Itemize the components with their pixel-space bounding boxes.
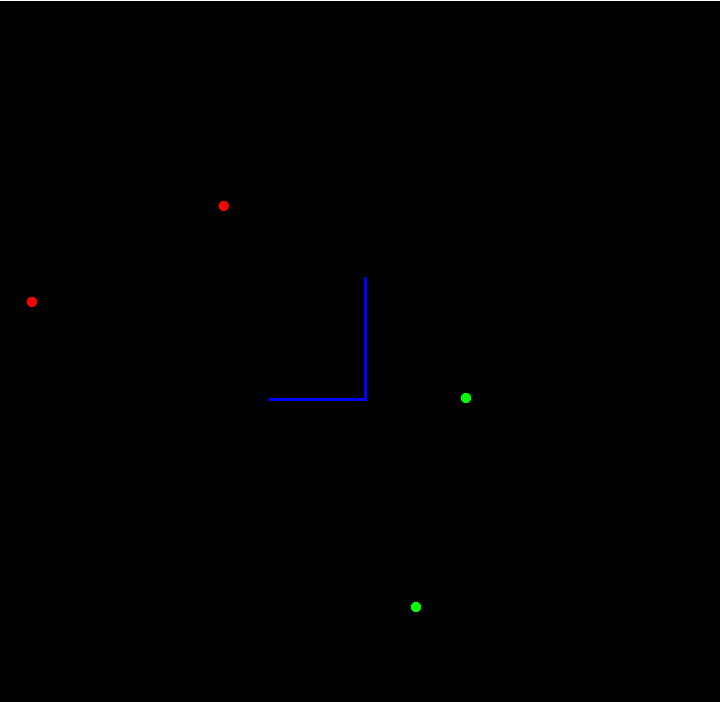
red dot 2 [27,297,37,307]
green dot 2 [411,602,421,612]
blue snake wire [269,277,366,400]
red dot 1 [219,201,229,211]
top white border line [0,0,720,1]
green dot 1 [461,393,471,403]
